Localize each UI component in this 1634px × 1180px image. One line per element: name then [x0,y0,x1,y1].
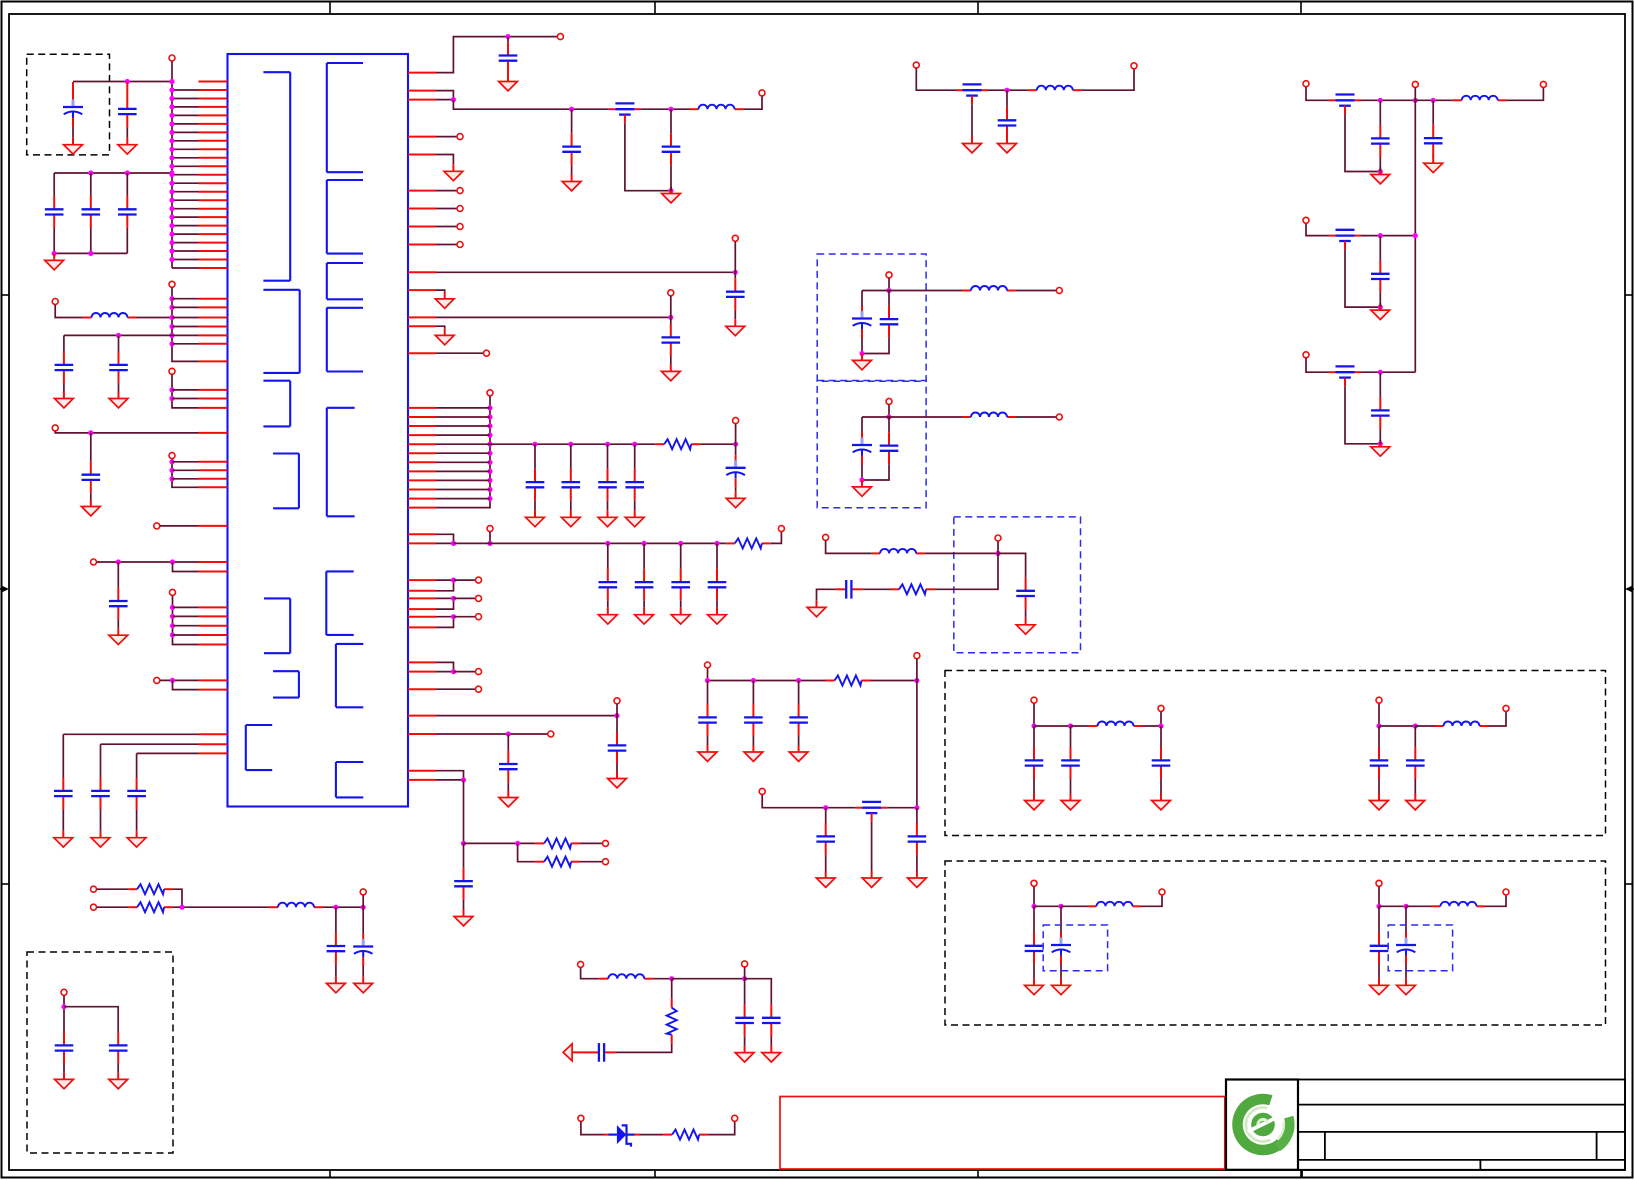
wire [1379,157,1381,172]
ground [625,510,644,526]
pin PR29 [408,579,436,581]
wire [172,242,199,244]
ground [435,292,454,308]
port P53 [1131,63,1137,69]
ground [661,364,680,380]
dashed box BOX3 [954,517,1081,653]
port P49 [705,662,711,668]
capacitor C57 (feedthrough) [1329,366,1361,386]
node N13 [169,172,174,177]
wire [436,461,490,463]
pin PR21 [408,461,436,463]
node N31 [169,315,174,320]
wire [90,433,92,461]
capacitor C64 [1025,932,1044,964]
node N44 [170,605,175,610]
node N79 [451,596,456,601]
wire [507,73,509,75]
capacitor C1 (polarized) [63,95,83,127]
ground [1016,618,1035,634]
inductor L12 [1088,902,1142,907]
wire [323,906,363,908]
resistor R1 [655,439,700,449]
node N111 [1413,233,1418,238]
ground [862,871,881,887]
pin PR41 [408,779,436,781]
wire [172,259,199,261]
ground [1424,156,1443,172]
ground [1052,978,1071,994]
wire [888,405,890,417]
wire [798,736,800,745]
capacitor C10 [54,778,73,810]
capacitor C25 [635,569,654,601]
pin PR23 [408,479,436,481]
wire [1379,236,1381,261]
pin PL26 [199,317,228,319]
dashed box BOX7 [945,861,1606,1025]
node N41 [169,476,174,481]
capacitor C56 [1371,260,1390,292]
wire [861,465,863,481]
node N18 [169,215,174,220]
wire [752,736,754,745]
border tick [1300,1170,1302,1178]
inductor L9 [1453,96,1507,101]
node N102 [823,805,828,810]
wire [1414,100,1416,372]
capacitor C53 [1371,125,1390,157]
resistor R10 [826,676,871,686]
pin PL11 [199,165,228,167]
wire [136,810,138,831]
port P56 [1540,81,1546,87]
U1 internal block 5 [264,598,290,653]
wire [436,91,453,100]
wire [571,109,573,133]
wire [436,452,490,454]
wire [1414,88,1416,101]
border tick [1300,2,1302,15]
node N60 [487,442,492,447]
wire [616,704,618,732]
wire [335,965,337,977]
node N120 [1058,904,1063,909]
node N108 [1431,98,1436,103]
wire [171,61,173,268]
wire [100,744,102,777]
wire [861,417,863,433]
wire [752,681,754,705]
pin PL12 [199,174,228,176]
ground [526,510,545,526]
pin PR20 [408,452,436,454]
port P51 [759,788,765,794]
wire [670,296,672,324]
wire [1489,712,1507,726]
wire [126,82,128,96]
node N71 [733,442,738,447]
wire [1306,87,1329,100]
capacitor C43 [880,432,899,464]
pin PL34 [199,432,228,434]
port P9 [170,589,176,595]
pin PL50 [199,743,228,745]
wire [100,810,102,831]
pin PR28 [408,542,436,544]
wire [172,398,199,400]
wire [454,597,476,599]
wire [625,123,671,191]
wire [463,900,465,910]
node N76 [678,541,683,546]
inductor L6 [962,286,1016,291]
pin PR11 [408,289,436,291]
wire [507,734,509,751]
pin PR32 [408,608,436,610]
wire [571,165,573,174]
node N89 [361,905,366,910]
pin PL35 [199,461,228,463]
wire [744,1036,746,1045]
wire [436,244,457,246]
U1 internal block 2 [263,290,299,373]
company logo [1237,1099,1289,1150]
inductor L1 [83,313,137,318]
pin PR38 [408,715,436,717]
wire [707,668,709,680]
wire [454,542,726,544]
wire [436,290,445,292]
wire [771,532,782,544]
capacitor C6 [55,352,74,384]
wire [507,37,509,43]
node N3 [169,87,174,92]
wire [888,278,890,290]
port P48 [1056,414,1062,420]
wire [925,552,998,554]
node N77 [714,541,719,546]
pin PL31 [199,389,228,391]
wire [436,208,457,210]
wire [436,434,490,436]
node N27 [52,251,57,256]
wire [671,979,673,999]
node N117 [1376,723,1381,728]
wire [971,104,973,136]
wire [916,808,918,823]
wire [744,967,746,979]
wire [172,98,199,100]
pin PL18 [199,225,228,227]
pin PL36 [199,469,228,471]
wire [117,1064,119,1072]
node N16 [169,198,174,203]
capacitor C2 [118,96,137,128]
pin PL16 [199,208,228,210]
title block table [1298,1080,1625,1178]
ground [963,137,982,153]
inductor L13 [1432,902,1486,907]
wire [436,597,454,599]
node N8 [169,130,174,135]
border tick [1625,294,1633,296]
wire [454,579,476,581]
wire [172,123,199,125]
wire [436,470,490,472]
ground [454,910,473,926]
port P11 [557,34,563,40]
wire [172,148,199,150]
wire [172,89,199,91]
node N43 [170,559,175,564]
pin PL28 [199,334,228,336]
ground [1371,440,1390,456]
capacitor C11 [91,778,110,810]
wire [862,338,889,354]
node N26 [169,170,174,175]
wire [716,601,718,608]
wire [762,795,855,808]
wire [889,290,962,292]
port P40 (off-page) [563,1044,588,1061]
pin PL47 [199,679,228,681]
capacitor C55 (feedthrough) [1329,230,1361,250]
wire [1378,887,1380,907]
wire [708,680,826,682]
wire [117,562,119,588]
port P63 [1031,880,1037,886]
wire [172,317,199,319]
wire [173,615,199,617]
wire [916,855,918,871]
node N37 [169,396,174,401]
node N17 [169,206,174,211]
wire [436,498,490,500]
ground [853,480,872,496]
pin PR4 [408,136,436,138]
ground [789,745,808,761]
capacitor C51 [998,107,1017,139]
U1 internal block 15 [336,762,363,797]
wire [172,106,199,108]
wire [1414,726,1416,747]
wire [653,978,671,980]
wire [172,306,199,308]
wire [670,356,672,364]
ground [327,976,346,992]
wire [160,679,198,681]
pin PL22 [199,259,228,261]
wire [634,501,636,511]
border tick [2,883,10,885]
wire [871,680,917,682]
node N35 [116,333,121,338]
U1 internal block 13 [326,571,353,635]
wire [63,733,198,735]
capacitor C47 (feedthrough) [856,802,888,822]
node N40 [169,468,174,473]
U1 internal block 4 [273,454,299,509]
wire [118,335,120,351]
inductor L7 [962,413,1016,418]
node N20 [169,232,174,237]
wire [436,662,454,671]
port P39 [742,961,748,967]
node N93 [995,551,1000,556]
wire [1415,725,1434,727]
port P10 [154,677,160,683]
node N107 [1413,98,1418,103]
dashed box BOX6 [945,671,1606,836]
wire [1071,725,1089,727]
wire [616,764,618,772]
port P44 [995,535,1001,541]
pin PL27 [199,326,228,328]
wire [173,889,182,907]
node N21 [169,240,174,245]
ground [444,164,463,180]
pin PL8 [199,140,228,142]
wire [172,267,199,269]
wire [888,807,917,809]
node N105 [1378,169,1383,174]
wire [1507,88,1544,101]
port P54 [1303,81,1309,87]
pin PL41 [199,571,228,573]
port P16 [457,224,463,230]
capacitor C54 [1424,125,1443,157]
node N23 [169,257,174,262]
wire [1378,779,1380,794]
node N82 [614,713,619,718]
wire [534,501,536,511]
wire [1406,905,1432,907]
port P41 [578,1115,584,1121]
capacitor C16 [662,133,681,165]
wire [172,225,199,227]
node N67 [532,442,537,447]
wire [436,479,490,481]
wire [172,140,199,142]
wire [1415,99,1452,101]
pin PR3 [408,99,436,101]
ground [127,831,146,847]
capacitor C26 [671,569,690,601]
port P58 [1303,352,1309,358]
wire [73,81,172,83]
wire [436,316,671,318]
wire [172,459,199,487]
node N72 [451,541,456,546]
capacitor C35 (series) [588,1043,616,1062]
capacitor C22 [625,469,644,501]
border arrow left [0,586,9,592]
wire [72,82,74,96]
node N99 [751,678,756,683]
capacitor C48 [816,823,835,855]
node N36 [169,387,174,392]
node N85 [461,841,466,846]
wire [988,89,1028,91]
resistor R4 [535,857,580,867]
capacitor C58 [1371,397,1390,429]
wire [126,128,128,138]
node N56 [487,405,492,410]
pin PR7 [408,208,436,210]
ground [726,491,745,507]
wire [172,389,199,391]
pin PR27 [408,533,436,535]
wire [1033,887,1035,907]
node N96 [886,414,891,419]
pin PL46 [199,644,228,646]
capacitor C45 [744,704,763,736]
pin PR9 [408,244,436,246]
wire [861,338,863,354]
wire [463,843,465,867]
wire [997,541,999,553]
wire [172,165,199,167]
capacitor C8 [82,461,101,493]
ground [118,138,137,154]
port P3 [169,281,175,287]
node N42 [116,559,121,564]
pin PR16 [408,416,436,418]
border tick [2,294,10,296]
pin PL42 [199,606,228,608]
wire [1025,609,1027,617]
border tick [977,2,979,15]
wire [436,425,490,427]
wire [101,743,199,745]
wire [172,174,199,176]
border arrow right [1625,586,1634,592]
pin PR31 [408,597,436,599]
node N68 [568,442,573,447]
pin PR19 [408,443,436,445]
pin PR15 [408,407,436,409]
node N57 [487,414,492,419]
pin PL7 [199,131,228,133]
border tick [977,1170,979,1178]
node N10 [169,147,174,152]
port P42 [732,1115,738,1121]
wire [97,561,199,563]
wire [1414,779,1416,794]
wire [1070,726,1072,747]
node N55 [668,315,673,320]
ground [708,608,727,624]
wire [362,895,364,907]
wire [64,334,172,336]
ground [1370,978,1389,994]
pin PL20 [199,242,228,244]
node N58 [487,423,492,428]
ground [807,600,826,616]
pin PL48 [199,689,228,691]
wire [362,907,364,934]
wire [436,271,735,273]
wire [62,810,64,831]
pin PR2 [408,90,436,92]
border tick [654,2,656,15]
ground [598,510,617,526]
wire [1486,895,1507,906]
node N59 [487,433,492,438]
pin PL38 [199,486,228,488]
wire [916,68,956,90]
